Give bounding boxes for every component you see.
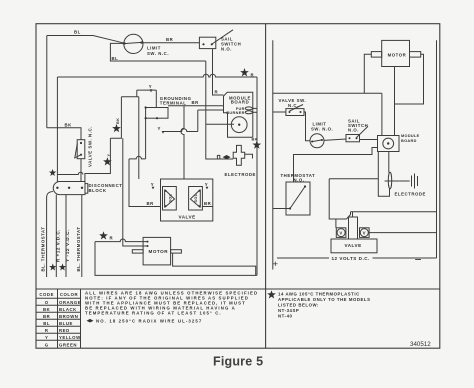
note star marker	[267, 290, 276, 298]
svg-text:BOARD: BOARD	[401, 139, 417, 143]
svg-text:ELECTRODE: ELECTRODE	[225, 172, 256, 177]
svg-text:Figure 5: Figure 5	[213, 355, 263, 369]
wire motor second feed	[123, 220, 147, 246]
solenoid coil L2 box	[189, 187, 203, 211]
LEGEND TABLE	[36, 289, 258, 348]
svg-text:R: R	[251, 72, 255, 77]
svg-text:Y: Y	[45, 335, 48, 340]
svg-text:BR: BR	[192, 100, 200, 105]
wire solenoid loop horizontal	[329, 178, 378, 180]
svg-text:+: +	[273, 259, 279, 270]
diamond radix wire marker	[223, 155, 231, 159]
panel divider	[265, 24, 267, 349]
svg-text:MOTOR: MOTOR	[388, 53, 407, 58]
wire BR module pin from grounding box	[168, 105, 224, 107]
BURNER terminal oval	[245, 111, 252, 114]
wire sail to module board	[360, 139, 378, 141]
limit switch S1 circle	[124, 34, 143, 53]
wire module pin 2	[198, 109, 224, 111]
svg-text:COLOR: COLOR	[60, 292, 79, 297]
svg-text:Y: Y	[149, 84, 152, 89]
thermostat bus wire 3	[65, 195, 67, 277]
wire BURNER to right rail	[252, 111, 257, 113]
motor input dots	[147, 241, 149, 243]
coil L1 dots	[165, 190, 167, 192]
svg-text:BK: BK	[252, 138, 258, 142]
module board U2 box	[378, 136, 400, 152]
wire motor left tab feed	[364, 54, 371, 93]
star BK mid	[112, 124, 121, 132]
wire jog between channels	[136, 90, 138, 97]
motor M1 box	[143, 237, 171, 265]
motor right tab	[171, 250, 182, 253]
svg-text:−: −	[415, 253, 422, 267]
LEFT PANEL	[41, 30, 262, 278]
wire motor loop left	[95, 242, 257, 276]
svg-text:Y: Y	[151, 182, 154, 187]
svg-text:N.O.: N.O.	[348, 128, 359, 133]
valve V2 base box	[331, 239, 377, 253]
svg-text:RED: RED	[59, 328, 70, 333]
svg-text:BK: BK	[65, 122, 73, 127]
svg-text:BK: BK	[116, 118, 120, 124]
svg-text:LISTED BELOW:: LISTED BELOW:	[278, 303, 319, 308]
svg-text:N.O.: N.O.	[221, 47, 232, 52]
motor M2 box	[382, 40, 410, 66]
grounding terminal dots	[145, 106, 147, 108]
coil L1 winding triangle	[165, 190, 175, 208]
spark wire terminal lug	[217, 155, 219, 159]
wire valve coil feed left vertical with hop	[138, 97, 140, 179]
FUR terminal oval	[245, 107, 252, 110]
svg-text:SW. N.C.: SW. N.C.	[147, 51, 169, 56]
sail switch S6 dots	[349, 137, 351, 139]
wire module pin B to electrode top	[388, 152, 390, 173]
electrode E1 ceramic body	[388, 172, 391, 189]
wire BL top-left vertical	[46, 36, 48, 128]
svg-text:BR: BR	[147, 201, 155, 206]
svg-text:GREEN: GREEN	[59, 343, 77, 348]
RIGHT PANEL	[273, 40, 437, 270]
disconnect block dots	[56, 187, 58, 189]
valve terminal T1 square	[336, 228, 346, 238]
wire right valve terminal to rail	[369, 232, 436, 234]
svg-text:BL: BL	[43, 321, 50, 326]
limit switch S5 circle	[310, 134, 324, 148]
svg-text:Y: Y	[158, 126, 161, 131]
valve switch S3 body	[77, 140, 85, 159]
svg-text:BL. THERMOSTAT: BL. THERMOSTAT	[41, 227, 46, 272]
wire module top feed	[381, 93, 383, 135]
wire thermostat top feed	[294, 148, 378, 183]
igniter center dot	[238, 124, 240, 126]
valve switch S4 body	[286, 109, 304, 116]
svg-text:Y -12 V.D.C.: Y -12 V.D.C.	[65, 229, 70, 262]
wire 12V bus left segment	[277, 257, 329, 259]
valve center bracket	[349, 217, 358, 239]
wire left bus vertical to disconnect block	[56, 77, 58, 182]
wire valve switch to disconnect block	[80, 159, 82, 182]
svg-text:14 AWG 105°C THERMOPLASTIC: 14 AWG 105°C THERMOPLASTIC	[278, 292, 360, 297]
wire right rail down from bus corner	[256, 77, 258, 275]
wire module pin A with electrode return loop	[378, 152, 389, 197]
wire electrode to spark gap	[399, 180, 410, 182]
valve terminal T2 square	[360, 228, 370, 238]
svg-text:12 VOLTS D.C.: 12 VOLTS D.C.	[332, 256, 370, 261]
legend separator line	[36, 288, 440, 290]
svg-text:SOL: SOL	[168, 193, 172, 202]
wire channel vertical down to motor	[122, 138, 124, 220]
wire igniter tap to circle	[206, 123, 234, 125]
disconnect block body	[53, 182, 85, 195]
svg-text:BROWN: BROWN	[59, 314, 78, 319]
wire valve bracket to right rail	[351, 211, 437, 213]
wire main horizontal bus with hops	[57, 74, 257, 77]
limit switch terminal dots	[123, 42, 125, 44]
wire motor feed with hop	[95, 239, 147, 242]
wire igniter feed vertical	[206, 61, 233, 159]
svg-text:SOL: SOL	[194, 193, 198, 202]
wire BL from limit switch down and right	[110, 43, 205, 61]
svg-text:VALVE: VALVE	[179, 215, 196, 220]
svg-text:BL: BL	[112, 56, 119, 61]
wire BR right coil	[202, 206, 212, 208]
valve terminal T1 circle V	[337, 229, 345, 237]
svg-text:TERMINAL: TERMINAL	[160, 101, 187, 106]
svg-text:VALVE: VALVE	[345, 243, 362, 248]
thermostat S7 box	[286, 182, 310, 215]
svg-text:Y: Y	[205, 182, 208, 187]
thermostat bus wire 1	[47, 192, 53, 278]
wire limit to sail	[324, 139, 346, 140]
svg-text:BOARD: BOARD	[231, 99, 250, 104]
wire BK horizontal row	[47, 128, 81, 140]
wire electrode to rail stub	[245, 154, 253, 158]
module board U2 center dot	[387, 142, 389, 144]
wire FUR to right rail	[252, 107, 257, 109]
wire sail switch down to module R pin	[213, 49, 224, 95]
thermostat bus wire 2	[55, 195, 57, 277]
svg-text:BR: BR	[43, 314, 51, 319]
valve assembly outer box	[161, 179, 213, 221]
svg-text:BLUE: BLUE	[59, 321, 73, 326]
sail switch S6 body	[346, 135, 360, 142]
wire channel vertical A	[110, 97, 121, 138]
valve switch lever	[75, 144, 81, 158]
wire right rail	[436, 40, 438, 258]
wire motor return loop	[173, 253, 256, 275]
limit switch contact line	[123, 42, 144, 43]
electrode crossbar	[385, 180, 400, 182]
svg-text:APPLICABLE ONLY TO THE MODELS: APPLICABLE ONLY TO THE MODELS	[278, 297, 371, 302]
svg-text:BURNER: BURNER	[226, 111, 244, 115]
svg-text:BR: BR	[166, 37, 174, 42]
thermostat S7 contacts	[290, 187, 305, 209]
wire valve right coil feed with hop	[181, 106, 184, 179]
wire motor right tab return	[395, 54, 424, 104]
svg-text:O: O	[45, 300, 49, 305]
svg-text:MODULE: MODULE	[401, 134, 420, 138]
wire left valve terminal feed	[335, 219, 337, 228]
svg-text:NO. 18 250°C RADIX WIRE UL-325: NO. 18 250°C RADIX WIRE UL-3257	[96, 319, 202, 324]
limit switch S5 contacts	[311, 140, 323, 142]
svg-text:R +12 V.D.C.: R +12 V.D.C.	[56, 229, 61, 262]
coil L2 winding triangle	[190, 190, 200, 208]
wire left rail	[272, 40, 274, 269]
svg-text:BLOCK: BLOCK	[89, 188, 107, 193]
motor M2 right tab	[410, 52, 421, 58]
svg-text:SW. N.O.: SW. N.O.	[311, 126, 333, 131]
svg-text:ELECTRODE: ELECTRODE	[395, 192, 426, 197]
spark gap bars	[412, 174, 418, 189]
electrode spark gap cross	[233, 145, 245, 165]
wire grounding box down to valve row with hop	[129, 118, 146, 159]
star R disconnect feed	[49, 169, 56, 176]
radix wire note with diamond marker	[87, 319, 94, 323]
star R on bus	[240, 68, 249, 76]
svg-text:BL: BL	[74, 30, 81, 35]
module board U1 outline	[224, 92, 253, 137]
star R bus	[49, 263, 56, 270]
valve terminal T2 circle V	[360, 229, 368, 237]
grounding terminal box	[146, 108, 168, 119]
wire Y mid horizontal	[163, 110, 198, 132]
wire channel horizontal top	[121, 96, 138, 98]
wire rail to thermostat	[273, 208, 290, 210]
svg-text:V: V	[339, 231, 342, 236]
wire grounding feed	[155, 90, 157, 107]
valve switch S4 lever	[290, 105, 304, 112]
svg-text:BK: BK	[43, 307, 51, 312]
svg-text:YELLOW: YELLOW	[59, 335, 81, 340]
star R motor	[99, 231, 108, 239]
svg-text:BLACK: BLACK	[59, 307, 77, 312]
svg-text:NT-40: NT-40	[278, 314, 293, 319]
svg-text:LIMIT: LIMIT	[147, 46, 161, 51]
wire motor branch horizontal	[273, 92, 382, 94]
star BK right rail	[252, 140, 261, 148]
sail switch terminal dots	[202, 43, 204, 45]
module board U2 circle	[383, 138, 394, 149]
wire BR left coil feed	[129, 159, 161, 207]
svg-text:BR: BR	[204, 201, 212, 206]
svg-text:ORANGE: ORANGE	[59, 300, 81, 305]
svg-text:V: V	[363, 231, 366, 236]
svg-text:BL. THERMOSTAT: BL. THERMOSTAT	[76, 227, 81, 272]
motor M2 left tab	[371, 52, 381, 58]
wire motor bottom pin to module	[394, 67, 396, 136]
motor left tab	[132, 250, 143, 253]
svg-text:R: R	[215, 90, 219, 95]
sail switch S6 lever	[357, 126, 369, 137]
RIGHT NOTE BOX	[267, 290, 431, 348]
sail switch lever	[212, 30, 233, 44]
svg-text:340512: 340512	[410, 341, 431, 348]
sail switch S2 box	[199, 37, 215, 48]
coil L2 dots	[198, 190, 200, 192]
svg-text:VALVE SW. N.C.: VALVE SW. N.C.	[88, 126, 93, 167]
wire solenoid loop left vertical	[329, 179, 346, 219]
svg-text:TEMPERATURE RATING OF AT LEAST: TEMPERATURE RATING OF AT LEAST 105° C.	[85, 310, 222, 315]
wire rail to valve switch	[273, 111, 286, 113]
svg-text:CODE: CODE	[39, 292, 54, 297]
thermostat bus wire 4	[81, 195, 83, 277]
border frame	[36, 24, 440, 349]
wire module left pin 2	[372, 147, 378, 149]
svg-text:G: G	[45, 343, 49, 348]
igniter coil circle on module	[231, 117, 247, 133]
svg-text:R: R	[110, 236, 114, 241]
color code table	[36, 289, 81, 348]
wire jog to bracket stub	[347, 212, 351, 219]
svg-text:R: R	[45, 328, 49, 333]
star Y bus	[59, 263, 66, 270]
wire 12V bus right segment	[373, 257, 437, 259]
wire BR limit to sail switch	[142, 42, 200, 44]
wire BL top horizontal to limit switch	[47, 36, 125, 44]
star Y lower	[103, 157, 112, 165]
svg-text:MOTOR: MOTOR	[149, 249, 169, 254]
wire disconnect top jumper with hop	[57, 172, 83, 174]
wire upper Y horizontal	[137, 89, 157, 91]
valve switch S4 dots	[289, 111, 291, 113]
svg-text:NT-34SP: NT-34SP	[278, 308, 299, 313]
wire valve switch to limit switch	[304, 112, 310, 141]
wire bracket stub	[352, 212, 354, 217]
wire star Y vertical to disconnect block	[85, 138, 111, 181]
valve switch terminal dots	[80, 142, 82, 144]
solenoid coil L1 box	[163, 187, 177, 211]
